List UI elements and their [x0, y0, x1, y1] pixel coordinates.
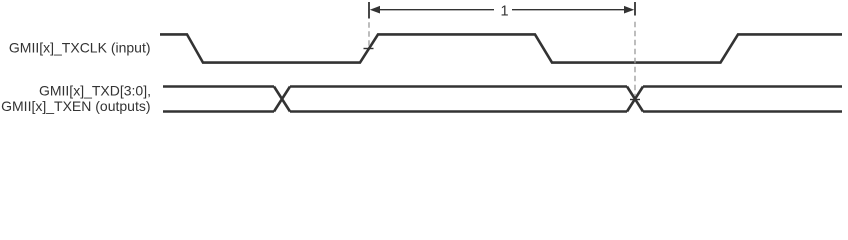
svg-text:1: 1: [500, 3, 508, 19]
svg-text:GMII[x]_TXEN (outputs): GMII[x]_TXEN (outputs): [1, 98, 150, 114]
svg-text:GMII[x]_TXD[3:0],: GMII[x]_TXD[3:0],: [39, 83, 151, 99]
svg-text:GMII[x]_TXCLK (input): GMII[x]_TXCLK (input): [9, 40, 151, 56]
